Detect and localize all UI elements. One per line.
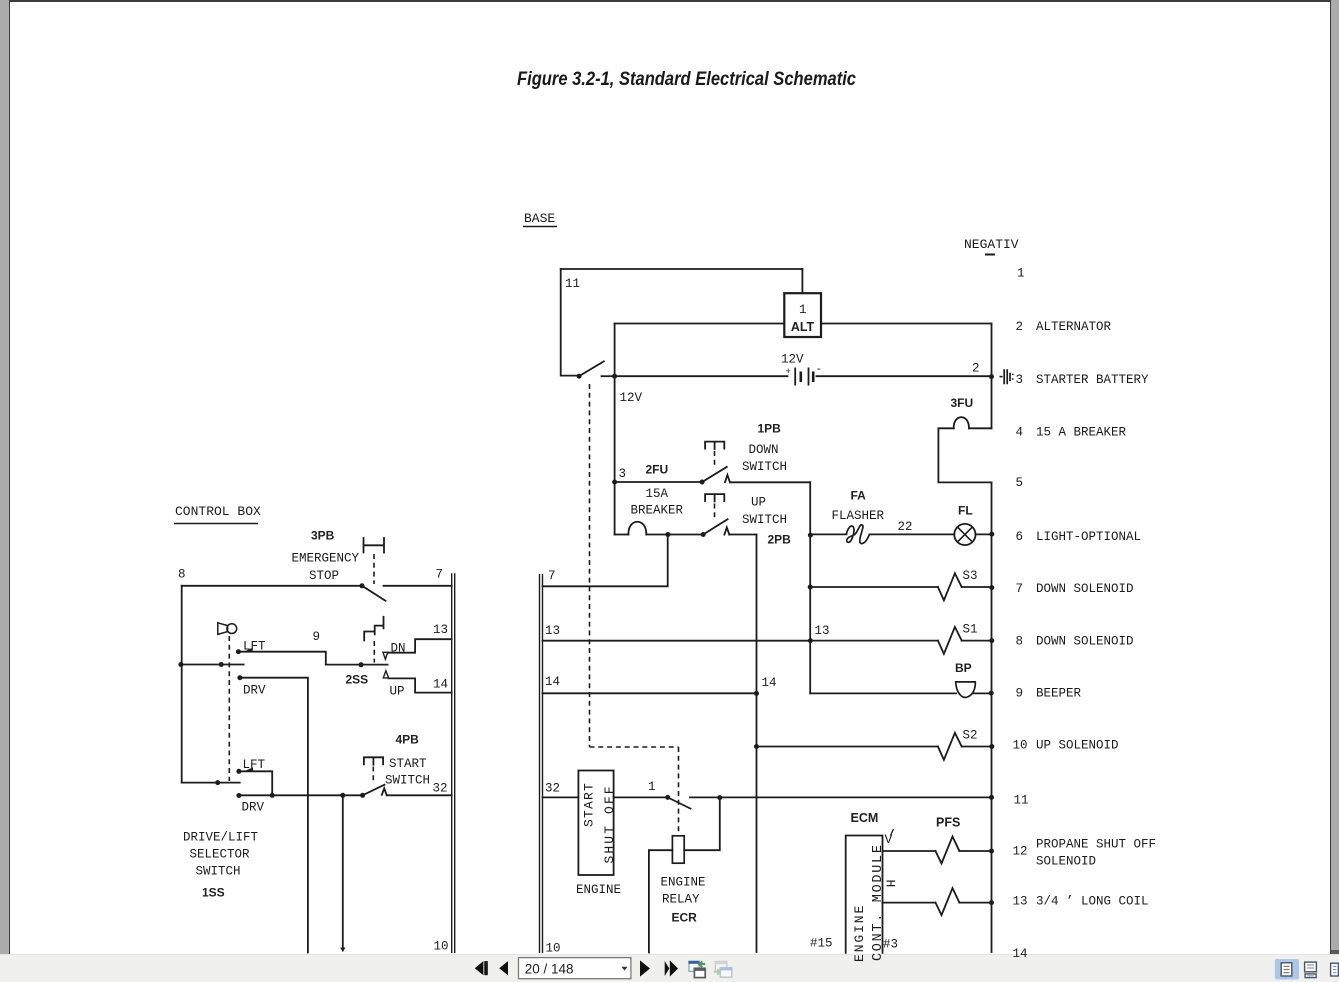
svg-text:5: 5 xyxy=(1016,476,1024,490)
svg-text:SELECTOR: SELECTOR xyxy=(190,848,251,862)
svg-text:FLASHER: FLASHER xyxy=(832,509,885,523)
list row 5 xyxy=(1016,476,1024,490)
wire DN contact xyxy=(388,639,452,653)
wire relay right lead xyxy=(684,798,720,851)
svg-text:12V: 12V xyxy=(781,353,804,367)
junction bus 11 xyxy=(989,795,994,800)
contact wedge LFT lower xyxy=(244,767,253,771)
toolbar next page button xyxy=(640,960,650,976)
junction 756 14 xyxy=(754,691,759,696)
junction bus BP xyxy=(989,691,994,696)
svg-text:STARTER BATTERY: STARTER BATTERY xyxy=(1036,373,1149,387)
svg-text:Figure 3.2-1, Standard Electri: Figure 3.2-1, Standard Electrical Schema… xyxy=(517,68,856,90)
control box left vertical xyxy=(181,586,183,783)
emergency stop actuator 3PB xyxy=(364,538,385,553)
toolbar first page button xyxy=(475,961,488,975)
svg-text:9: 9 xyxy=(1016,687,1024,701)
key switch blade xyxy=(579,361,604,376)
junction 12V-2FU xyxy=(612,480,617,485)
svg-text:13: 13 xyxy=(815,624,830,638)
svg-text:32: 32 xyxy=(433,782,448,796)
solenoid S3 xyxy=(938,573,962,600)
list row 3 xyxy=(1016,373,1150,387)
wire up switch to corner xyxy=(729,534,756,536)
svg-text:FL: FL xyxy=(958,504,973,518)
wire ECM V row xyxy=(883,850,936,852)
wire S2 row xyxy=(757,746,938,748)
breaker 15A arc xyxy=(628,522,646,535)
toolbar last page button xyxy=(665,960,678,976)
wire coil to bus xyxy=(959,902,991,904)
bus negative main xyxy=(991,482,993,952)
junction left bus selector xyxy=(178,662,183,667)
start shut off box xyxy=(578,771,617,876)
relay coil ECR xyxy=(672,836,684,863)
svg-text:UP: UP xyxy=(751,496,766,510)
svg-text:S2: S2 xyxy=(963,729,978,743)
svg-text:#3: #3 xyxy=(883,938,898,952)
svg-text:7: 7 xyxy=(1016,582,1024,596)
svg-text:#15: #15 xyxy=(810,937,833,951)
junction flasher tap xyxy=(808,533,813,538)
wire ALT to bus xyxy=(615,323,992,325)
wire key switch to 12V node xyxy=(602,375,615,377)
list row 10 xyxy=(1013,739,1119,753)
svg-text:DRIVE/LIFT: DRIVE/LIFT xyxy=(183,831,259,845)
vertical 12V feeder xyxy=(614,324,616,535)
svg-text:2: 2 xyxy=(1016,320,1024,334)
svg-text:RELAY: RELAY xyxy=(662,893,700,907)
svg-text:DOWN SOLENOID: DOWN SOLENOID xyxy=(1036,635,1134,649)
flasher FA symbol xyxy=(846,525,869,544)
wire S1 segment xyxy=(810,640,991,642)
wire LFT upper xyxy=(238,652,325,665)
list row 8 xyxy=(1016,635,1134,649)
svg-text:7: 7 xyxy=(548,569,556,583)
svg-text:14: 14 xyxy=(762,676,777,690)
wire S3 to bus xyxy=(962,586,992,588)
harness double line center xyxy=(540,574,543,953)
svg-text:BP: BP xyxy=(955,661,972,675)
wire DRV upper xyxy=(240,678,308,953)
svg-text:2FU: 2FU xyxy=(646,463,669,477)
list row 9 xyxy=(1016,687,1082,701)
push button actuator 2PB xyxy=(705,494,724,501)
svg-text:1SS: 1SS xyxy=(202,886,225,900)
dashed link 2SS xyxy=(373,641,375,663)
svg-text:2: 2 xyxy=(972,362,980,376)
svg-text:BREAKER: BREAKER xyxy=(631,504,684,518)
junction bus S2 xyxy=(989,744,994,749)
list row 12 xyxy=(1013,838,1157,869)
alternator box ALT xyxy=(784,293,821,337)
svg-text:9: 9 xyxy=(313,630,321,644)
junction start row drop xyxy=(340,793,345,798)
junction down switch pivot xyxy=(700,480,705,485)
svg-text:4PB: 4PB xyxy=(396,733,420,747)
svg-text:13: 13 xyxy=(1013,895,1028,909)
wire flasher left xyxy=(810,533,846,535)
svg-text:1: 1 xyxy=(648,780,656,794)
harness double line left xyxy=(452,573,455,953)
wire battery to bus xyxy=(817,375,992,377)
svg-text:6: 6 xyxy=(1016,530,1024,544)
junction bus lamp xyxy=(989,532,994,537)
wire UP contact xyxy=(389,678,452,692)
svg-text:15A: 15A xyxy=(646,487,669,501)
svg-text:ALT: ALT xyxy=(791,320,815,334)
vertical feeder 756 xyxy=(756,535,758,953)
vertical feeder 810 xyxy=(809,482,811,693)
dashed link 4PB xyxy=(372,767,374,784)
contact triangle UP xyxy=(383,671,388,678)
junction 12V battery wire xyxy=(612,374,617,379)
svg-text:3FU: 3FU xyxy=(951,396,974,410)
svg-text:BEEPER: BEEPER xyxy=(1036,687,1082,701)
contact triangle start switch xyxy=(382,788,387,795)
junction estop pivot xyxy=(360,583,365,588)
solenoid S1 xyxy=(938,627,962,654)
svg-text:8: 8 xyxy=(178,568,186,582)
ECM engine control module box xyxy=(846,836,886,963)
breaker 3FU arc xyxy=(954,417,969,428)
contact wedge LFT upper xyxy=(244,648,253,652)
svg-text:22: 22 xyxy=(898,520,913,534)
svg-text:UP SOLENOID: UP SOLENOID xyxy=(1036,739,1119,753)
svg-text:20 / 148: 20 / 148 xyxy=(525,962,574,977)
dashed link 2PB xyxy=(714,504,716,518)
wire 32 row mid xyxy=(614,796,668,798)
contact LFT lower xyxy=(236,769,241,774)
list row 6 xyxy=(1016,530,1142,544)
svg-text:12V: 12V xyxy=(620,391,643,405)
wire beeper left xyxy=(810,692,956,694)
bus negative upper xyxy=(991,324,993,429)
junction 2SS common xyxy=(359,662,364,667)
svg-text:-: - xyxy=(816,364,823,376)
wire LFT lower xyxy=(239,771,272,795)
svg-text:15 A BREAKER: 15 A BREAKER xyxy=(1036,426,1127,440)
label CONTROL BOX xyxy=(174,504,261,524)
list row 13 xyxy=(1013,895,1149,909)
wire battery left xyxy=(615,375,788,377)
wire start row right xyxy=(387,794,452,796)
svg-text:1: 1 xyxy=(799,303,807,317)
svg-text:3/4 ’ LONG COIL: 3/4 ’ LONG COIL xyxy=(1036,895,1149,909)
toolbar single page mode button active xyxy=(1275,959,1299,980)
wire 3FU loop xyxy=(938,428,991,482)
dashed link 3PB xyxy=(373,554,375,584)
svg-text:ENGINE: ENGINE xyxy=(661,876,706,890)
svg-text:3PB: 3PB xyxy=(311,529,335,543)
toolbar next view button disabled xyxy=(714,961,733,977)
junction 756 S2 xyxy=(754,744,759,749)
junction start switch pivot xyxy=(360,793,365,798)
wire beeper to bus xyxy=(974,692,992,694)
svg-text:ECR: ECR xyxy=(672,911,698,925)
wire flasher to lamp xyxy=(870,533,955,535)
down switch blade xyxy=(702,467,727,482)
svg-text:LIGHT-OPTIONAL: LIGHT-OPTIONAL xyxy=(1036,530,1141,544)
toolbar continuous mode button xyxy=(1305,962,1317,978)
svg-text:2SS: 2SS xyxy=(346,673,369,687)
svg-text:BASE: BASE xyxy=(524,211,555,226)
dashed link 1PB xyxy=(714,451,716,465)
junction selector feed xyxy=(219,662,224,667)
vertical drop 342 xyxy=(342,795,344,947)
svg-text:FA: FA xyxy=(851,489,867,503)
svg-text:12: 12 xyxy=(1013,845,1028,859)
svg-text:SWITCH: SWITCH xyxy=(742,513,787,527)
svg-text:PROPANE SHUT OFF: PROPANE SHUT OFF xyxy=(1036,838,1156,852)
svg-text:SWITCH: SWITCH xyxy=(196,865,241,879)
svg-text:START: START xyxy=(389,757,427,771)
label NEGATIV xyxy=(964,237,1019,255)
svg-text:4: 4 xyxy=(1016,426,1024,440)
svg-text:3: 3 xyxy=(1016,373,1024,387)
label BASE xyxy=(523,211,557,227)
svg-text:14: 14 xyxy=(1013,947,1028,961)
svg-text:SWITCH: SWITCH xyxy=(742,460,787,474)
svg-text:S3: S3 xyxy=(963,569,978,583)
wire net 7 center xyxy=(543,535,668,587)
svg-text:ECM: ECM xyxy=(851,811,879,825)
svg-text:11: 11 xyxy=(1014,794,1029,808)
svg-text:7: 7 xyxy=(436,568,444,582)
junction 810 13 xyxy=(808,638,813,643)
wire S3 row xyxy=(810,586,938,588)
wire net 8 right xyxy=(384,585,452,587)
svg-text:10: 10 xyxy=(546,942,561,956)
contact LFT upper xyxy=(236,649,241,654)
toolbar prev page button xyxy=(499,961,508,975)
svg-text:LFT: LFT xyxy=(243,758,266,772)
wire selector common upper xyxy=(326,664,388,666)
wire selector feed upper xyxy=(182,664,244,666)
solenoid long coil xyxy=(936,888,960,915)
svg-text:2PB: 2PB xyxy=(768,533,792,547)
wire 2FU row xyxy=(615,481,701,483)
junction bus battery xyxy=(989,374,994,379)
svg-text:DRV: DRV xyxy=(243,684,266,698)
list row 1 xyxy=(1017,267,1025,281)
dashed link center xyxy=(590,384,679,835)
wire left drop to key switch xyxy=(561,269,577,376)
svg-text:SOLENOID: SOLENOID xyxy=(1036,855,1096,869)
start switch blade xyxy=(363,785,385,796)
wire start row xyxy=(239,794,363,796)
svg-text:ENGINE: ENGINE xyxy=(576,883,621,897)
svg-text:S1: S1 xyxy=(963,623,978,637)
solenoid S2 xyxy=(938,733,962,760)
svg-text:1PB: 1PB xyxy=(758,422,782,436)
ECM pin V xyxy=(885,829,894,847)
wire 15A row left xyxy=(615,534,629,536)
list row 2 xyxy=(1016,320,1112,334)
engine switch blade xyxy=(668,797,691,808)
dashed link 1SS xyxy=(228,636,230,781)
wire relay left lead xyxy=(649,850,673,952)
wire net 14 center xyxy=(543,692,757,694)
wire net 8 row xyxy=(182,585,361,587)
wire net 13 center xyxy=(543,640,811,642)
junction selector feed lower xyxy=(215,780,220,785)
svg-text:DOWN: DOWN xyxy=(749,443,779,457)
svg-text:H: H xyxy=(883,880,898,888)
svg-text:DRV: DRV xyxy=(242,801,265,815)
svg-text:NEGATIV: NEGATIV xyxy=(964,237,1019,252)
junction bus S3 xyxy=(989,585,994,590)
wire selector feed lower xyxy=(182,782,240,784)
wire ECM H row xyxy=(883,902,936,904)
bottom arrow 342 xyxy=(340,948,345,953)
push button actuator 4PB xyxy=(364,757,383,764)
selector key symbol 1SS xyxy=(218,623,237,635)
junction bus coil xyxy=(989,900,994,905)
svg-text:32: 32 xyxy=(545,782,560,796)
svg-text:+: + xyxy=(786,367,791,377)
wire down switch to corner xyxy=(730,481,810,483)
selector actuator 2SS xyxy=(364,617,383,641)
junction start row mid xyxy=(270,793,275,798)
svg-text:11: 11 xyxy=(565,277,580,291)
wire PFS to bus xyxy=(959,850,991,852)
lamp FL light-optional xyxy=(954,524,975,545)
push button actuator 1PB xyxy=(705,442,724,449)
wire 15A row mid xyxy=(646,534,702,536)
wire ALT top lead xyxy=(801,269,803,293)
svg-text:14: 14 xyxy=(433,678,448,692)
junction bus PFS xyxy=(989,849,994,854)
junction 810 S3 xyxy=(808,585,813,590)
junction relay tap xyxy=(717,795,722,800)
contact triangle DN xyxy=(383,652,388,659)
up switch contact triangle xyxy=(724,527,729,534)
wire lamp to bus xyxy=(976,533,992,535)
svg-text:8: 8 xyxy=(1016,635,1024,649)
wire net 11 top xyxy=(561,268,803,270)
svg-text:STOP: STOP xyxy=(309,569,339,583)
svg-text:10: 10 xyxy=(434,940,449,954)
svg-text:10: 10 xyxy=(1013,739,1028,753)
toolbar facing mode button cut xyxy=(1331,963,1339,976)
svg-text:PFS: PFS xyxy=(936,816,960,830)
svg-text:13: 13 xyxy=(545,624,560,638)
svg-text:1: 1 xyxy=(1017,267,1025,281)
list row 7 xyxy=(1016,582,1134,596)
wire 32 row left xyxy=(543,796,579,798)
estop blade xyxy=(362,586,386,601)
svg-text:3: 3 xyxy=(619,467,627,481)
down switch contact triangle xyxy=(725,475,730,482)
svg-text:DOWN SOLENOID: DOWN SOLENOID xyxy=(1036,582,1134,596)
svg-text:ALTERNATOR: ALTERNATOR xyxy=(1036,320,1112,334)
svg-text:CONTROL BOX: CONTROL BOX xyxy=(175,504,261,519)
svg-text:ENGINE: ENGINE xyxy=(852,904,867,962)
toolbar previous view button xyxy=(688,961,706,978)
wire S2 to bus xyxy=(962,746,992,748)
svg-text:14: 14 xyxy=(545,675,560,689)
svg-text:EMERGENCY: EMERGENCY xyxy=(292,552,360,566)
junction 15A row tap7 xyxy=(665,532,670,537)
up switch blade xyxy=(703,519,727,534)
svg-text:13: 13 xyxy=(433,623,448,637)
contact DRV upper xyxy=(237,675,242,680)
svg-text:SWITCH: SWITCH xyxy=(385,774,430,788)
list row 4 xyxy=(1016,426,1127,440)
battery BAT 12V xyxy=(786,364,823,386)
junction up switch pivot xyxy=(701,532,706,537)
wire net 11 row xyxy=(690,796,992,798)
solenoid PFS propane xyxy=(936,837,960,864)
toolbar page combo xyxy=(519,958,631,979)
svg-text:START: START xyxy=(582,782,597,827)
svg-text:SHUT OFF: SHUT OFF xyxy=(602,784,617,863)
junction bus S1 xyxy=(989,638,994,643)
junction engine switch pivot xyxy=(665,795,670,800)
contact DRV lower xyxy=(236,793,241,798)
svg-text:UP: UP xyxy=(390,685,405,699)
beeper BP symbol xyxy=(956,682,976,698)
junction key switch xyxy=(577,374,582,379)
starter battery symbol xyxy=(1000,369,1014,384)
